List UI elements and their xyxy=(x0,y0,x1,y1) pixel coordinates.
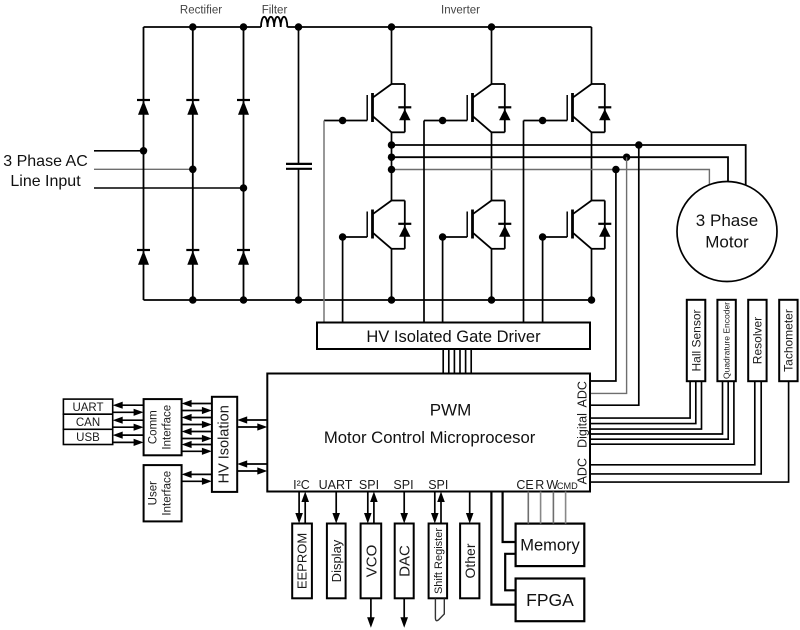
arrows SPI to Shift Register xyxy=(434,492,436,515)
wire phase B output xyxy=(392,157,729,182)
node gate top 3 xyxy=(539,117,547,125)
node phase A taps xyxy=(388,141,396,149)
svg-text:SPI: SPI xyxy=(393,478,413,492)
node phase B taps xyxy=(388,153,396,161)
sensor block Tachometer xyxy=(779,300,797,381)
arrow to Other xyxy=(469,492,471,515)
svg-text:HV Isolation: HV Isolation xyxy=(217,405,233,483)
svg-text:Motor Control Microprocesor: Motor Control Microprocesor xyxy=(324,428,536,447)
svg-text:USB: USB xyxy=(76,432,100,444)
wire Tachometer to ADC input xyxy=(590,381,789,482)
node AC phase 3 junction xyxy=(240,184,248,192)
arrows Comm Interface to HV Isolation xyxy=(191,403,212,405)
node gate bottom 2 xyxy=(439,233,447,241)
svg-text:Rectifier: Rectifier xyxy=(180,5,222,17)
wire W to Memory xyxy=(552,492,554,524)
wire collector Q3 to top rail xyxy=(491,27,493,84)
transistor Q3 IGBT top phase 2 xyxy=(467,84,511,132)
wire phase 1 midpoint vertical xyxy=(391,132,393,200)
wire phase B sense to ADC xyxy=(590,157,627,393)
block FPGA xyxy=(516,579,585,622)
motor M1 3 Phase Motor xyxy=(677,182,777,282)
svg-text:Shift Register: Shift Register xyxy=(433,528,445,594)
svg-text:VCO: VCO xyxy=(363,545,380,578)
block HV Isolation xyxy=(212,397,237,492)
wire gate drive top IGBT phase 1 xyxy=(324,120,367,122)
diode D3 rectifier top xyxy=(237,99,250,101)
wire rectifier leg 3 xyxy=(243,27,245,300)
block EEPROM xyxy=(292,524,312,599)
arrows HV Isolation to microprocessor lower xyxy=(246,463,267,465)
wire phase 2 midpoint vertical xyxy=(491,132,493,200)
wire Shift Register output tail xyxy=(435,599,444,621)
svg-text:Motor: Motor xyxy=(705,233,749,252)
wire data bus microprocessor to FPGA xyxy=(491,492,515,605)
transistor Q2 IGBT bottom phase 1 xyxy=(367,201,411,249)
wire phase C sense to ADC xyxy=(590,170,616,382)
wire CMD to Memory xyxy=(565,492,567,524)
block User Interface xyxy=(144,465,182,521)
block UART port xyxy=(63,399,112,414)
transistor Q1 IGBT top phase 1 xyxy=(367,84,411,132)
svg-text:Inverter: Inverter xyxy=(441,5,480,17)
arrow VCO output xyxy=(370,598,372,618)
wire phase 3 midpoint vertical xyxy=(591,132,593,200)
svg-text:Interface: Interface xyxy=(162,471,174,516)
wire gate drive bottom IGBT phase 2 xyxy=(443,237,468,323)
wire AC input phase 1 xyxy=(94,150,144,152)
transistor Q4 IGBT bottom phase 2 xyxy=(467,201,511,249)
svg-text:Tachometer: Tachometer xyxy=(782,309,796,372)
transistor Q5 IGBT top phase 3 xyxy=(567,84,611,132)
arrows USB to Comm Interface xyxy=(122,434,144,436)
wire DC- bottom rail xyxy=(144,299,592,301)
block Display xyxy=(327,524,346,599)
gate driver U2 HV Isolated Gate Driver xyxy=(317,323,590,350)
inductor L1 filter xyxy=(261,17,287,27)
svg-text:Hall Sensor: Hall Sensor xyxy=(689,309,703,371)
svg-text:Resolver: Resolver xyxy=(751,317,765,364)
svg-text:CAN: CAN xyxy=(76,417,100,429)
node top rail junctions xyxy=(189,23,197,31)
node gate top 2 xyxy=(439,117,447,125)
svg-text:3 Phase AC: 3 Phase AC xyxy=(3,153,88,170)
svg-text:EEPROM: EEPROM xyxy=(295,533,310,589)
svg-text:FPGA: FPGA xyxy=(526,590,574,610)
arrow DAC output xyxy=(403,598,405,618)
arrows UART to Comm Interface xyxy=(122,404,144,406)
svg-text:CMD: CMD xyxy=(557,481,578,491)
svg-text:Filter: Filter xyxy=(262,5,288,17)
wire gate driver to microprocessor bus xyxy=(442,349,444,374)
svg-text:DAC: DAC xyxy=(397,545,414,577)
wire capacitor to bottom rail xyxy=(298,170,300,301)
node gate bottom 1 xyxy=(339,233,347,241)
diode D6 rectifier bottom xyxy=(237,249,250,251)
wire emitter Q2 to bottom rail xyxy=(391,249,393,300)
microprocessor U1 PWM Motor Control Microprocesor xyxy=(267,374,590,492)
wire R to Memory xyxy=(540,492,542,524)
capacitor C1 filter xyxy=(298,27,300,163)
svg-text:HV Isolated Gate Driver: HV Isolated Gate Driver xyxy=(366,328,541,346)
arrow UART to Display xyxy=(335,492,337,515)
arrow SPI to DAC xyxy=(403,492,405,515)
arrows User Interface to HV Isolation xyxy=(191,473,212,475)
arrows CAN to Comm Interface xyxy=(122,419,144,421)
svg-text:UART: UART xyxy=(72,402,103,414)
node AC phase 1 junction xyxy=(140,147,148,155)
block Other xyxy=(460,524,479,599)
wire phase C output xyxy=(392,170,710,187)
block Memory xyxy=(516,524,585,567)
block CAN port xyxy=(63,414,112,429)
wire gate drive bottom IGBT phase 1 xyxy=(343,237,368,323)
svg-text:SPI: SPI xyxy=(428,478,448,492)
wire data bus Memory to FPGA xyxy=(505,554,515,591)
wires Quadrature Encoder to Digital inputs xyxy=(590,381,723,434)
svg-text:Quadrature Encoder: Quadrature Encoder xyxy=(722,302,732,379)
block Comm Interface xyxy=(144,399,182,455)
block VCO xyxy=(361,524,382,599)
arrows SPI to VCO xyxy=(367,492,369,515)
wire gate drive bottom IGBT phase 3 xyxy=(543,237,568,323)
svg-text:PWM: PWM xyxy=(430,401,472,420)
svg-text:R: R xyxy=(535,478,544,492)
wire phase A output xyxy=(392,145,746,186)
node gate bottom 3 xyxy=(539,233,547,241)
wire AC input phase 2 xyxy=(94,168,193,170)
sensor block Resolver xyxy=(748,300,766,381)
wire AC input phase 3 xyxy=(94,187,244,189)
node bottom rail junctions xyxy=(189,296,197,304)
svg-text:User: User xyxy=(148,481,160,505)
svg-text:Comm: Comm xyxy=(148,410,160,444)
node AC phase 2 junction xyxy=(189,166,197,174)
wire collector Q1 to top rail xyxy=(391,27,393,84)
wire collector Q5 to top rail xyxy=(591,27,593,84)
transistor Q6 IGBT bottom phase 3 xyxy=(567,201,611,249)
wire emitter Q4 to bottom rail xyxy=(491,249,493,300)
svg-text:3 Phase: 3 Phase xyxy=(696,211,758,230)
diode D2 rectifier top xyxy=(186,99,199,101)
svg-text:Interface: Interface xyxy=(162,405,174,450)
node gate top 1 xyxy=(339,117,347,125)
arrows HV Isolation to microprocessor upper xyxy=(246,419,267,421)
svg-text:Display: Display xyxy=(329,539,344,582)
svg-text:ADC: ADC xyxy=(576,381,590,407)
wires Hall Sensor to Digital inputs xyxy=(590,381,690,418)
wire data bus microprocessor to Memory xyxy=(503,492,516,543)
svg-text:SPI: SPI xyxy=(359,478,379,492)
wire rectifier leg 2 xyxy=(192,27,194,300)
wire CE to Memory xyxy=(527,492,529,524)
sensor block Hall Sensor xyxy=(687,300,706,381)
diode D5 rectifier bottom xyxy=(186,249,199,251)
svg-text:Other: Other xyxy=(462,543,478,578)
wire rectifier leg 1 xyxy=(143,27,145,300)
wire emitter Q6 to bottom rail xyxy=(591,249,593,300)
diode D1 rectifier top xyxy=(137,99,150,101)
diode D4 rectifier bottom xyxy=(137,249,150,251)
wires Resolver to ADC inputs xyxy=(590,381,755,465)
block DAC xyxy=(395,524,414,599)
wire gate drive top IGBT phase 2 xyxy=(424,120,467,122)
node phase C taps xyxy=(388,166,396,174)
wire phase A sense to ADC xyxy=(590,145,639,405)
sensor block Quadrature Encoder xyxy=(717,300,735,381)
svg-text:Line Input: Line Input xyxy=(10,173,81,190)
wire DC+ top rail xyxy=(144,26,262,28)
svg-text:CE: CE xyxy=(516,478,533,492)
svg-text:Digital: Digital xyxy=(576,413,590,448)
svg-text:UART: UART xyxy=(319,478,353,492)
svg-text:I²C: I²C xyxy=(293,478,310,492)
svg-text:Memory: Memory xyxy=(520,537,580,555)
arrows I2C to EEPROM xyxy=(298,492,300,515)
wire gate drive top IGBT phase 3 xyxy=(524,120,568,122)
block Shift Register xyxy=(429,524,448,599)
block USB port xyxy=(63,429,112,444)
